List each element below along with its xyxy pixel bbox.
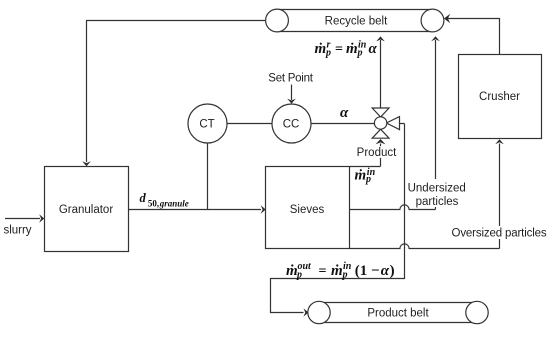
svg-text:Granulator: Granulator (59, 204, 114, 216)
svg-text:p: p (365, 174, 371, 185)
svg-text:=: = (335, 42, 343, 57)
svg-text:Oversized particles: Oversized particles (452, 228, 547, 240)
svg-text:(1 −: (1 − (355, 263, 380, 279)
svg-text:d: d (140, 191, 147, 205)
svg-text:α: α (340, 105, 349, 121)
svg-text:CT: CT (199, 119, 214, 131)
svg-text:p: p (342, 269, 348, 280)
svg-text:α: α (369, 41, 378, 57)
svg-text:CC: CC (283, 119, 300, 131)
svg-text:Set Point: Set Point (268, 73, 313, 85)
svg-text:p: p (325, 48, 331, 59)
svg-text:Crusher: Crusher (479, 91, 520, 103)
svg-text:α: α (381, 263, 390, 279)
svg-text:p: p (296, 269, 302, 280)
svg-text:granule: granule (159, 198, 189, 208)
svg-text:Undersized: Undersized (408, 183, 466, 195)
svg-text:Product belt: Product belt (367, 307, 429, 319)
svg-text:Recycle belt: Recycle belt (325, 15, 388, 27)
svg-text:): ) (390, 263, 395, 279)
svg-text:Sieves: Sieves (290, 204, 325, 216)
svg-text:p: p (357, 48, 363, 59)
svg-text:particles: particles (416, 196, 459, 208)
svg-text:50,: 50, (148, 198, 159, 208)
svg-text:Product: Product (357, 147, 397, 159)
svg-text:slurry: slurry (3, 225, 31, 237)
svg-text:=: = (319, 264, 327, 279)
